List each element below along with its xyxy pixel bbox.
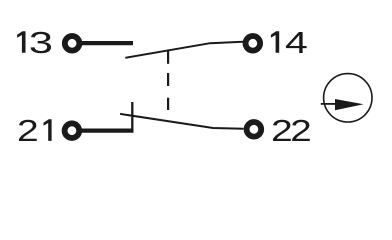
- svg-text:2: 2: [17, 114, 39, 148]
- terminal circle 13: [65, 36, 80, 51]
- terminal label 14: [271, 25, 308, 60]
- wire from terminal 21: [81, 129, 134, 133]
- terminal label 21: [17, 114, 52, 148]
- NC fixed contact stop bar: [131, 102, 133, 131]
- arrow shaft: [321, 103, 336, 105]
- actuator direction circle: [324, 74, 372, 122]
- terminal circle 22: [247, 122, 262, 137]
- wire from terminal 13: [81, 41, 133, 45]
- terminal circle 21: [65, 123, 80, 138]
- arrow head: [335, 99, 364, 110]
- svg-text:4: 4: [285, 25, 308, 60]
- mechanical linkage dashed line: [167, 50, 169, 110]
- svg-text:3: 3: [29, 25, 53, 59]
- NC moving contact 21-22: [120, 114, 244, 129]
- svg-text:2: 2: [290, 114, 311, 148]
- terminal label 22: [271, 114, 312, 148]
- terminal circle 14: [246, 36, 261, 51]
- NO moving contact 13-14: [125, 42, 243, 58]
- terminal label 13: [17, 25, 53, 59]
